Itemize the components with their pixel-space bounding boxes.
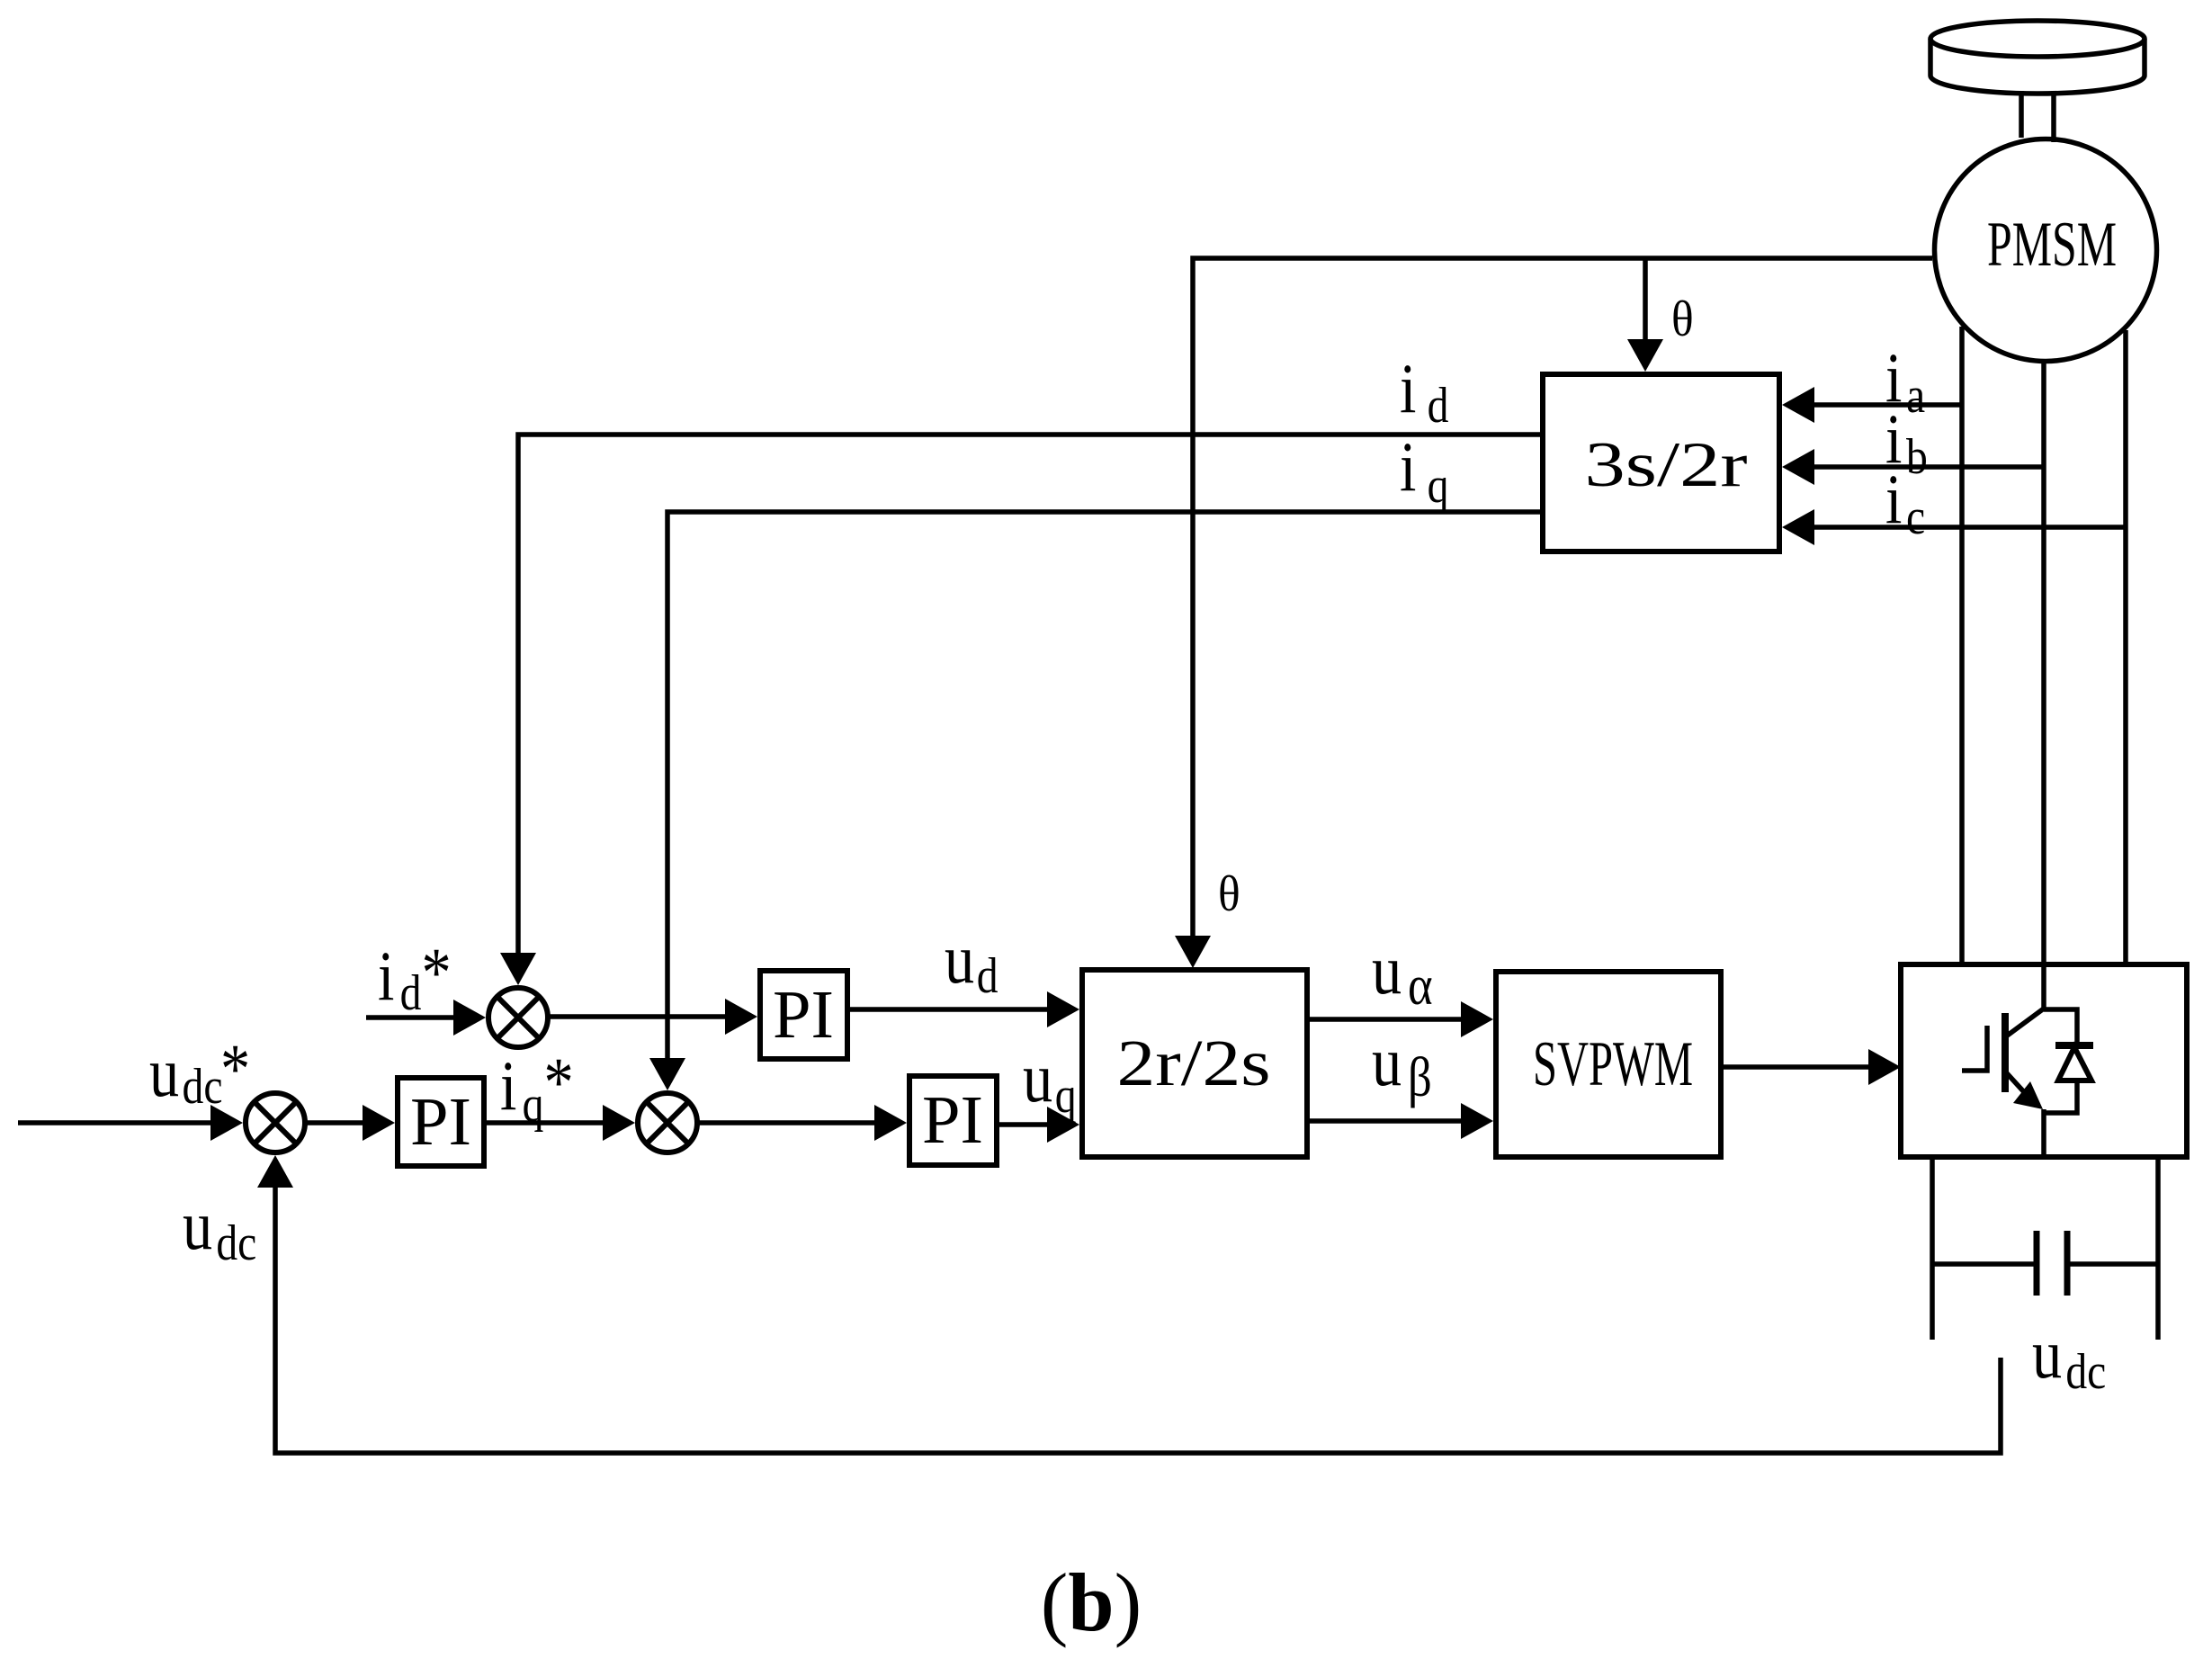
wire: phase c line	[2123, 330, 2128, 962]
svg-text:udc*: udc*	[149, 1030, 250, 1115]
wire: phase b line	[2041, 363, 2046, 962]
PI block PI2	[760, 971, 847, 1059]
svg-text:iq: iq	[1400, 428, 1448, 514]
wire: S1 to PI1	[305, 1120, 369, 1125]
svg-text:PI: PI	[410, 1084, 471, 1160]
wire: i_b tap	[1809, 464, 2044, 470]
block 2r/2s	[1082, 970, 1307, 1157]
summing junction S1 (u_dc)	[246, 1093, 305, 1152]
svg-text:id*: id*	[378, 934, 452, 1021]
motor PMSM circle	[1935, 139, 2157, 362]
svg-text:uq: uq	[1023, 1039, 1077, 1124]
wire: u_beta 2r/2s to SVPWM	[1310, 1118, 1466, 1124]
motor shaft	[2021, 91, 2054, 142]
svg-text:PI: PI	[773, 977, 834, 1053]
wire: i_q from 3s/2r to S2	[667, 512, 1540, 1063]
wire: i_d from 3s/2r to S3	[518, 435, 1540, 957]
svg-text:2r/2s: 2r/2s	[1117, 1027, 1271, 1099]
svg-text:θ: θ	[1218, 865, 1240, 921]
svg-text:udc: udc	[183, 1187, 256, 1271]
svg-text:udc: udc	[2032, 1315, 2106, 1400]
wire: top feedback line from PMSM with theta drop to 2r/2s	[1193, 258, 1932, 940]
wire: SVPWM to inverter	[1724, 1064, 1874, 1070]
svg-text:3s/2r: 3s/2r	[1585, 430, 1748, 500]
wire: i_d* input	[366, 1015, 461, 1020]
IGBT emitter lead	[2007, 1073, 2026, 1094]
PI block PI1	[398, 1078, 484, 1166]
svg-text:θ: θ	[1671, 291, 1694, 346]
wire: S2 to PI3	[697, 1120, 880, 1125]
svg-text:(b): (b)	[1041, 1556, 1142, 1648]
wire: u_dc* input line	[18, 1120, 214, 1125]
svg-text:ud: ud	[945, 920, 999, 1004]
wire: PI1 to S2 (i_q*)	[487, 1120, 608, 1125]
wire: i_c tap	[1809, 525, 2126, 530]
wire: u_dc bottom feedback	[275, 1183, 2001, 1453]
IGBT gate lead	[1962, 1026, 1987, 1071]
svg-text:id: id	[1400, 350, 1448, 434]
wire: S3 to PI2	[548, 1014, 730, 1019]
summing junction S2 (i_q)	[638, 1093, 697, 1152]
svg-text:PI: PI	[922, 1082, 983, 1158]
wire: DC link right drop	[2155, 1159, 2161, 1340]
svg-text:uβ: uβ	[1372, 1023, 1432, 1108]
wire: PI3 to 2r/2s (u_q)	[997, 1122, 1052, 1127]
wire: i_a tap	[1809, 402, 1962, 408]
diode D1	[2044, 1009, 2077, 1113]
svg-text:SVPWM: SVPWM	[1533, 1029, 1693, 1099]
motor load disc	[1930, 21, 2145, 57]
node: theta branch at 1829,287	[1643, 258, 1648, 344]
block 3s/2r	[1543, 374, 1779, 552]
wire: DC link left drop	[1930, 1159, 1935, 1340]
wire: PI2 to 2r/2s (u_d)	[850, 1007, 1052, 1012]
wire: phase a line	[1959, 327, 1965, 962]
summing junction S3 (i_d)	[488, 988, 548, 1047]
IGBT collector lead	[2006, 967, 2044, 1036]
capacitor C	[1932, 1261, 2158, 1267]
IGBT bar	[2002, 1013, 2009, 1092]
PI block PI3	[909, 1076, 997, 1165]
block SVPWM	[1496, 972, 1721, 1157]
svg-text:iq*: iq*	[500, 1044, 574, 1133]
svg-text:PMSM: PMSM	[1987, 210, 2117, 280]
block inverter	[1901, 964, 2187, 1157]
wire: u_alpha 2r/2s to SVPWM	[1310, 1017, 1466, 1022]
svg-text:uα: uα	[1372, 931, 1433, 1017]
